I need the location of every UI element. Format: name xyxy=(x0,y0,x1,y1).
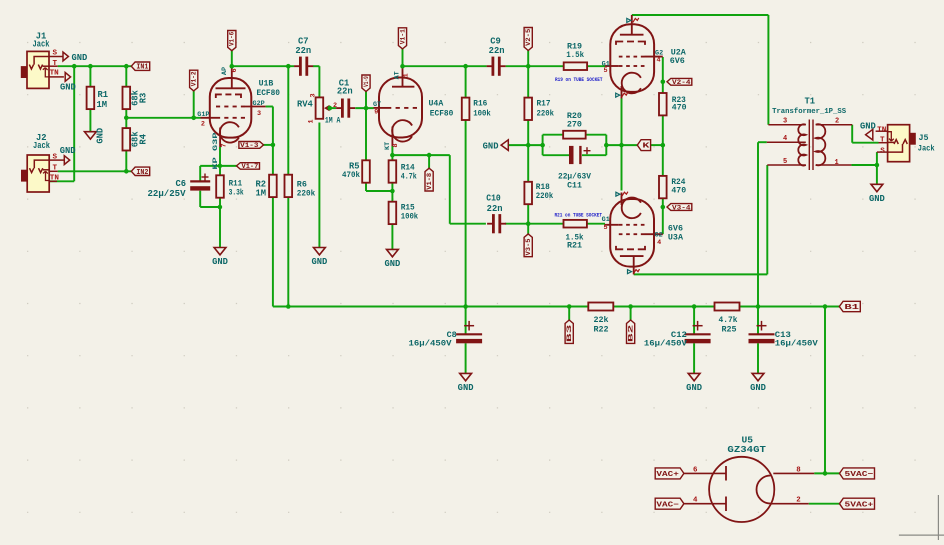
svg-text:GND: GND xyxy=(60,83,76,93)
svg-text:C11: C11 xyxy=(567,181,582,190)
resistor R5 xyxy=(362,160,370,182)
svg-text:2: 2 xyxy=(796,497,800,505)
svg-text:C10: C10 xyxy=(486,194,501,204)
wire R1 top xyxy=(89,66,91,87)
resistor R3 xyxy=(123,87,131,109)
power label GND at J1.TN xyxy=(60,73,76,93)
svg-text:6: 6 xyxy=(693,466,698,474)
ground GND at C13 xyxy=(750,373,766,393)
svg-text:V1-8: V1-8 xyxy=(426,173,433,190)
label C9 xyxy=(489,36,505,56)
wire J1.T row xyxy=(58,65,132,67)
svg-text:100k: 100k xyxy=(401,211,419,221)
svg-text:220k: 220k xyxy=(536,191,554,201)
svg-text:R19 on TUBE SOCKET: R19 on TUBE SOCKET xyxy=(555,77,603,83)
resistor R21 xyxy=(564,220,587,228)
resistor R25 xyxy=(715,303,740,311)
junction node N36 at (288.3,306.5) xyxy=(286,304,291,309)
junction node N28 at (662.8,145.1) xyxy=(661,143,666,148)
wire C7 to RV4 xyxy=(313,66,319,97)
svg-text:R18: R18 xyxy=(536,183,550,192)
junction node N18 at (465.6,66.2) xyxy=(463,64,468,69)
wire R5 bottom xyxy=(366,183,392,191)
wire T1 pin4 to bus xyxy=(758,142,767,306)
capacitor C12 xyxy=(685,321,711,343)
svg-text:AP: AP xyxy=(221,67,229,75)
wire J2.T row xyxy=(58,170,132,172)
svg-text:R21 on TUBE SOCKET: R21 on TUBE SOCKET xyxy=(555,213,603,219)
wire R24 bottom to U3A G2 xyxy=(662,198,664,234)
junction node N19 at (465.6,306.5) xyxy=(463,304,468,309)
junction node N5 at (126.3,171.3) xyxy=(124,169,129,174)
junction node N21 at (528.2,145.1) xyxy=(526,143,531,148)
NC mark U2A anode pin xyxy=(627,18,639,23)
capacitor C6 xyxy=(190,174,210,191)
power label GND at J2.S xyxy=(60,146,76,164)
svg-text:Jack: Jack xyxy=(918,143,935,153)
wire R1 bottom xyxy=(89,109,91,132)
label R24 xyxy=(671,178,686,195)
label R3 xyxy=(130,89,148,106)
svg-text:GND: GND xyxy=(860,121,876,131)
hierarchical label V2-4 xyxy=(667,78,692,86)
svg-text:GND: GND xyxy=(686,383,702,393)
junction node N27 at (630.6,306.5) xyxy=(628,304,633,309)
junction node N26 at (621.5,145.1) xyxy=(619,143,624,148)
junction node N12 at (329.8,108.1) xyxy=(328,106,333,111)
wire R17 top xyxy=(527,66,529,97)
junction node N23 at (542.6,145.1) xyxy=(540,143,545,148)
wire V1-1 stub xyxy=(402,49,404,66)
label R14 xyxy=(401,163,417,181)
svg-text:R11: R11 xyxy=(229,180,243,189)
svg-text:V1-2: V1-2 xyxy=(191,71,198,86)
svg-text:22n: 22n xyxy=(295,46,311,56)
junction node N10 at (272.9,144.9) xyxy=(271,143,276,148)
wire to R19 xyxy=(528,65,564,67)
sheet border xyxy=(899,495,944,540)
svg-text:GND: GND xyxy=(60,146,76,156)
svg-text:16µ/450V: 16µ/450V xyxy=(409,339,453,349)
label C1 xyxy=(337,79,353,97)
capacitor C7 xyxy=(294,57,313,76)
wire V1-9 stub xyxy=(365,92,367,109)
wire grid G1P xyxy=(126,117,200,119)
svg-text:V2-5: V2-5 xyxy=(525,29,532,46)
svg-text:V3-4: V3-4 xyxy=(672,204,691,211)
svg-text:5: 5 xyxy=(783,158,787,166)
resistor R6 xyxy=(285,175,293,197)
resistor R22 xyxy=(588,303,613,311)
labels RV4 xyxy=(297,93,341,125)
svg-text:V1-6: V1-6 xyxy=(229,32,236,46)
junction node N16 at (402.5,66.2) xyxy=(400,64,405,69)
wire R15 bottom to ground xyxy=(391,224,393,249)
junction node N24 at (569.2,306.5) xyxy=(567,304,572,309)
svg-text:TN: TN xyxy=(877,126,887,134)
resistor R18 xyxy=(524,182,532,204)
labels T1 xyxy=(772,97,847,167)
svg-text:1: 1 xyxy=(835,159,839,167)
svg-text:B3: B3 xyxy=(566,325,574,343)
svg-text:3: 3 xyxy=(310,93,318,97)
wire C9 to V2-5 node xyxy=(506,65,529,67)
svg-text:5: 5 xyxy=(604,67,608,75)
wire R14 bottom xyxy=(391,183,393,202)
tube U3A 6V6 xyxy=(605,193,663,275)
svg-text:R25: R25 xyxy=(721,324,736,334)
hierarchical label K xyxy=(637,140,650,151)
junction node N3 at (126.3,66.2) xyxy=(124,64,129,69)
ground GND at R1 xyxy=(85,128,106,144)
svg-text:IN1: IN1 xyxy=(136,64,148,72)
svg-text:1M A: 1M A xyxy=(325,117,341,125)
junction node N7 at (219.9,165.9) xyxy=(218,164,223,169)
pin wires J2 xyxy=(49,160,64,181)
wire R19 to G1 xyxy=(587,65,605,67)
connector J5 Jack xyxy=(888,125,916,162)
label R1 xyxy=(97,90,109,110)
svg-text:KT: KT xyxy=(384,142,392,150)
svg-text:GND: GND xyxy=(458,383,474,393)
svg-text:4: 4 xyxy=(783,135,787,143)
wire G2P down to R2 xyxy=(266,107,273,175)
NC mark U3A cathode pin xyxy=(616,192,628,197)
label C12 xyxy=(644,330,688,349)
svg-text:1: 1 xyxy=(402,73,410,77)
resistor R20 xyxy=(563,131,586,139)
svg-text:470: 470 xyxy=(671,186,686,195)
capacitor C13 xyxy=(749,321,775,343)
svg-text:6V6: 6V6 xyxy=(670,56,685,66)
resistor R17 xyxy=(524,98,532,120)
wire R6 bottom to bus xyxy=(287,197,289,306)
pin wires J1 xyxy=(49,57,64,77)
wire U4A anode row xyxy=(403,65,487,67)
svg-text:V1-1: V1-1 xyxy=(399,29,406,44)
hierarchical label V3-4 xyxy=(667,204,692,212)
label R23 xyxy=(672,96,687,112)
label J5 xyxy=(877,126,935,155)
svg-text:U4A: U4A xyxy=(429,99,444,108)
wire R23 bottom xyxy=(662,115,664,145)
svg-text:VAC−: VAC− xyxy=(656,501,679,509)
svg-text:1M: 1M xyxy=(255,189,266,199)
svg-text:16µ/450V: 16µ/450V xyxy=(775,339,819,349)
hierarchical label IN2 xyxy=(131,167,149,177)
resistor R16 xyxy=(462,98,470,120)
wire R11 bottom to ground xyxy=(219,198,221,248)
label R17 xyxy=(537,99,555,118)
svg-text:AT: AT xyxy=(393,71,401,79)
wire V3-5 stub xyxy=(527,224,529,234)
capacitor C9 xyxy=(487,57,506,76)
hierarchical label V1-6 xyxy=(228,31,236,51)
ground GND at R11 xyxy=(212,248,228,268)
hierarchical label V1-8 xyxy=(425,168,433,191)
wire GND arrow to cathode node xyxy=(509,144,543,146)
svg-text:B2: B2 xyxy=(628,325,636,343)
power label GND at J1.S xyxy=(63,52,87,63)
resistor R1 xyxy=(87,87,95,109)
wire bus to U5 pin8 xyxy=(824,307,826,474)
hierarchical label V1-3 xyxy=(239,142,264,150)
wire V1-7 stub xyxy=(220,165,238,167)
junction node N33 at (825,306.5) xyxy=(823,304,828,309)
svg-text:100k: 100k xyxy=(473,108,491,118)
svg-text:22n: 22n xyxy=(489,46,505,56)
wire R18 bottom xyxy=(527,204,529,224)
label R25 xyxy=(719,315,738,334)
resistor R4 xyxy=(123,128,131,150)
label R2 xyxy=(255,180,266,199)
junction node N31 at (694.1,306.5) xyxy=(692,304,697,309)
svg-text:B1: B1 xyxy=(844,304,860,312)
svg-text:220k: 220k xyxy=(297,189,316,199)
tube U2A 6V6 xyxy=(605,15,663,99)
svg-text:3.3k: 3.3k xyxy=(229,188,244,198)
junction node N6 at (193.7,117.8) xyxy=(191,116,196,121)
connector J1 Jack xyxy=(21,51,49,88)
svg-text:R22: R22 xyxy=(593,324,608,334)
svg-text:5: 5 xyxy=(604,224,608,232)
svg-text:GND: GND xyxy=(72,53,88,63)
svg-text:470k: 470k xyxy=(342,170,360,180)
svg-text:4: 4 xyxy=(657,57,661,65)
junction node N8 at (219.9,207) xyxy=(218,205,223,210)
wire C6 top xyxy=(200,166,220,181)
labels U3A xyxy=(602,216,684,247)
svg-text:5VAC+: 5VAC+ xyxy=(845,501,874,509)
wire R3 top xyxy=(125,66,127,87)
junction node N35 at (876.9,165) xyxy=(875,163,880,168)
label C8 xyxy=(409,330,457,349)
junction node N25 at (606.3,145.1) xyxy=(604,143,609,148)
wire C1 to GT xyxy=(355,107,373,109)
svg-text:8: 8 xyxy=(796,466,801,474)
ground GND at RV4 xyxy=(311,248,327,268)
wire R16 top xyxy=(465,66,467,97)
svg-text:7: 7 xyxy=(220,143,228,147)
svg-text:C6: C6 xyxy=(175,179,186,189)
junction node N30 at (662.8,207) xyxy=(661,205,666,210)
wire U3A cathode xyxy=(621,145,623,190)
svg-text:Jack: Jack xyxy=(33,39,51,49)
pin wires J5 xyxy=(876,131,888,152)
wire loop to K xyxy=(606,144,663,146)
svg-text:2: 2 xyxy=(835,117,839,125)
svg-text:V3-5: V3-5 xyxy=(525,238,532,255)
svg-text:GND: GND xyxy=(311,257,327,267)
junction node N4 at (126.3,117.8) xyxy=(124,116,129,121)
wire cathode row to C10 xyxy=(392,155,486,224)
hierarchical label IN1 xyxy=(131,62,149,72)
svg-text:K: K xyxy=(642,143,650,151)
junction node N2 at (90.4,66.2) xyxy=(88,64,93,69)
svg-text:GND: GND xyxy=(750,383,766,393)
hierarchical label VAC- xyxy=(655,498,684,509)
svg-text:3: 3 xyxy=(783,117,787,125)
junction node N29 at (662.8,81.8) xyxy=(661,80,666,85)
junction node N1 at (74.2,66.2) xyxy=(72,64,77,69)
labels U2A xyxy=(602,47,687,75)
svg-text:Transformer_1P_SS: Transformer_1P_SS xyxy=(772,108,847,116)
svg-text:G2P: G2P xyxy=(253,100,265,108)
wire V1-3 stub xyxy=(262,144,273,146)
tube U4A ECF80 (triode section) xyxy=(374,66,423,146)
svg-text:9: 9 xyxy=(374,109,378,117)
svg-text:GND: GND xyxy=(384,259,400,269)
svg-text:R4: R4 xyxy=(139,133,149,144)
junction node N34 at (825,473.4) xyxy=(823,471,828,476)
svg-text:4.7k: 4.7k xyxy=(401,171,417,181)
ground GND at R15 xyxy=(384,249,400,269)
wire RV4 bottom to ground xyxy=(318,123,320,248)
svg-text:1: 1 xyxy=(308,119,316,123)
junction node N20 at (528.2,66.2) xyxy=(526,64,531,69)
wire U2A anode to T1 pin3 xyxy=(632,15,769,125)
power label GND at J5.TN xyxy=(860,121,876,140)
label R6 xyxy=(297,180,316,199)
svg-text:4: 4 xyxy=(693,497,698,505)
capacitor C1 xyxy=(336,99,355,118)
labels U4A xyxy=(373,71,453,150)
svg-text:1.5k: 1.5k xyxy=(566,50,584,60)
svg-text:22µ/25V: 22µ/25V xyxy=(148,189,187,199)
junction node N13 at (366,108.1) xyxy=(364,106,369,111)
svg-text:G1: G1 xyxy=(602,216,610,224)
capacitor C10 xyxy=(487,214,506,233)
resistor R24 xyxy=(659,176,667,198)
labels U5 xyxy=(693,434,801,504)
svg-text:R16: R16 xyxy=(473,99,487,108)
svg-text:V1-3: V1-3 xyxy=(240,142,259,149)
label C10 xyxy=(486,194,502,214)
wire V2-5 stub xyxy=(527,51,529,67)
wire R24 top xyxy=(662,145,664,176)
transformer T1 xyxy=(767,120,852,171)
label R19 xyxy=(566,41,584,60)
connector J2 Jack xyxy=(21,155,49,192)
svg-text:ECF80: ECF80 xyxy=(430,109,454,118)
junction node N17 at (429.1,155.1) xyxy=(427,153,432,158)
junction node N32 at (758,306.5) xyxy=(756,304,761,309)
wire T1 pin2 to J5.T xyxy=(852,125,878,143)
hierarchical label B1 xyxy=(839,301,860,312)
svg-text:22n: 22n xyxy=(337,86,353,96)
svg-text:1M: 1M xyxy=(97,100,108,110)
ground GND at C8 xyxy=(458,373,474,393)
label R16 xyxy=(473,99,491,118)
label R22 xyxy=(593,315,608,334)
label R15 xyxy=(401,204,419,222)
junction node N14 at (392.4,155.1) xyxy=(390,153,395,158)
wire U1B anode row xyxy=(232,65,294,67)
svg-text:GND: GND xyxy=(483,142,499,152)
svg-text:470: 470 xyxy=(672,103,687,112)
ground GND at C12 xyxy=(686,373,702,393)
svg-text:ECF80: ECF80 xyxy=(257,89,281,98)
svg-text:R21: R21 xyxy=(567,241,582,251)
wire R4 bottom xyxy=(125,151,127,172)
svg-text:GND: GND xyxy=(212,257,228,267)
label R11 xyxy=(229,180,244,198)
wire R20-C11 loop xyxy=(543,135,607,156)
resistor R11 xyxy=(216,175,224,197)
svg-text:RV4: RV4 xyxy=(297,99,314,109)
svg-text:R17: R17 xyxy=(537,99,551,108)
svg-text:4: 4 xyxy=(657,239,661,247)
wire R17 to R18 xyxy=(527,120,529,182)
potentiometer RV4 xyxy=(316,97,331,118)
svg-text:T1: T1 xyxy=(805,97,816,107)
svg-text:U1B: U1B xyxy=(259,80,274,89)
tube U1B ECF80 (pentode section) xyxy=(201,66,266,147)
svg-text:GND: GND xyxy=(869,194,885,204)
wire T1 pin1 to J5.S node xyxy=(851,152,877,184)
svg-text:6: 6 xyxy=(231,68,239,72)
wire J1T-J2TN vertical xyxy=(49,66,74,181)
junction node N22 at (528.2,223.7) xyxy=(526,221,531,226)
wire V1-2 stub xyxy=(193,91,195,118)
power label GND label at divider xyxy=(483,140,509,152)
resistor R14 xyxy=(389,160,397,182)
NC mark U3A anode pin xyxy=(628,269,640,274)
wire U2A cathode xyxy=(621,99,623,146)
hierarchical label V2-5 xyxy=(524,28,532,51)
svg-text:5VAC−: 5VAC− xyxy=(845,471,874,479)
hierarchical label V3-5 xyxy=(524,234,532,257)
svg-text:22n: 22n xyxy=(487,204,503,214)
wire U2A G2 column xyxy=(662,57,664,93)
wire R2 bottom to bus xyxy=(272,197,274,306)
wire C6 bottom xyxy=(200,191,220,207)
wire R6 top xyxy=(287,66,289,175)
wire B+ bus xyxy=(273,306,839,308)
junction node N15 at (392.4,191) xyxy=(390,189,395,194)
hierarchical label V1-9 xyxy=(362,75,370,92)
label C6 xyxy=(148,179,187,199)
labels U1B xyxy=(197,67,280,170)
label C11 xyxy=(558,172,591,191)
wire U5 pin2 to 5VAC+ xyxy=(809,503,840,505)
wire R5 top xyxy=(365,108,367,160)
label J1 xyxy=(33,32,60,78)
svg-text:U3A: U3A xyxy=(668,232,684,242)
wire B3 stub xyxy=(568,307,570,321)
svg-text:16µ/450V: 16µ/450V xyxy=(644,339,688,349)
wire KP node xyxy=(219,147,221,175)
label C7 xyxy=(295,37,311,56)
hierarchical label V1-7 xyxy=(237,163,260,171)
label R18 xyxy=(536,183,554,201)
resistor R23 xyxy=(659,93,667,115)
wire KT node xyxy=(391,146,393,160)
capacitor C8 xyxy=(456,321,482,343)
svg-text:KP G3P: KP G3P xyxy=(212,133,220,170)
capacitor C11 xyxy=(569,146,591,164)
svg-text:G1P: G1P xyxy=(197,111,209,119)
svg-text:8: 8 xyxy=(392,143,400,147)
label R21 xyxy=(566,232,584,250)
wire C12 leads xyxy=(693,307,695,374)
svg-text:3: 3 xyxy=(257,110,261,118)
ground GND at J5 xyxy=(869,184,885,204)
svg-text:22µ/63V: 22µ/63V xyxy=(558,172,591,182)
hierarchical label V1-2 xyxy=(190,70,198,91)
wire V1-6 stub xyxy=(231,51,233,66)
svg-text:C9: C9 xyxy=(490,36,501,46)
